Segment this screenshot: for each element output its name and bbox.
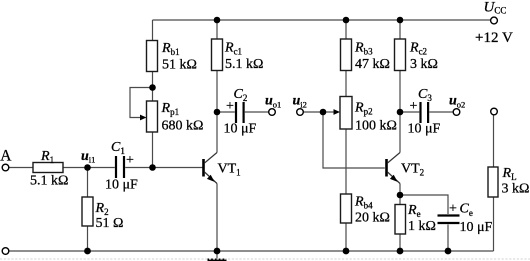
wire C1 to VT1 base — [125, 167, 202, 169]
wire VT1 emitter down — [216, 184, 218, 252]
wire Rc2 to collector — [399, 71, 401, 153]
resistor Re — [395, 205, 406, 235]
svg-text:+: + — [126, 153, 134, 168]
node ui1 — [84, 164, 91, 171]
wire A to R1 — [9, 167, 34, 169]
wire Rc2 top — [399, 20, 401, 39]
node bottom Ce — [445, 248, 452, 255]
wire Rp1 to base line — [152, 132, 154, 168]
arrow into Rp2 — [334, 109, 341, 115]
resistor RL — [488, 167, 498, 197]
svg-text:5.1 kΩ: 5.1 kΩ — [30, 174, 68, 189]
wire Ce bottom — [447, 225, 449, 252]
wire C3 to uo2 — [429, 111, 453, 113]
node C3 tap — [397, 109, 404, 116]
node VT2 emitter — [397, 192, 404, 199]
wire R2 top — [87, 168, 89, 198]
wire R2 bottom — [87, 226, 89, 251]
wire RL top — [493, 115, 495, 167]
capacitor C3 — [421, 102, 429, 123]
node ui2 branch — [320, 109, 327, 116]
svg-text:100 kΩ: 100 kΩ — [355, 119, 397, 134]
capacitor C1 — [116, 156, 124, 178]
transistor VT2 — [387, 153, 401, 184]
node top rail Rc2 — [397, 17, 404, 24]
svg-text:A: A — [0, 147, 12, 164]
svg-text:20 kΩ: 20 kΩ — [355, 211, 390, 226]
capacitor Ce — [438, 216, 460, 224]
arrow into Rp1 — [140, 115, 147, 121]
wire RL bottom — [493, 197, 495, 251]
svg-text:680 kΩ: 680 kΩ — [162, 119, 204, 134]
node bottom Re — [397, 248, 404, 255]
terminal uo1 — [269, 109, 276, 116]
svg-text:10 μF: 10 μF — [224, 122, 257, 137]
node bottom Rb4 — [343, 248, 350, 255]
wire Rc1 top — [216, 20, 218, 39]
node bottom R2 — [84, 248, 91, 255]
resistor Rb3 — [341, 39, 352, 71]
svg-text:10 μF: 10 μF — [408, 122, 441, 137]
resistor Rc2 — [395, 39, 406, 71]
node top rail Rc1 — [214, 17, 221, 24]
potentiometer Rp1 — [147, 101, 158, 132]
wire left drop to Rb1 — [152, 20, 154, 41]
svg-text:+: + — [449, 202, 457, 217]
terminal ui2 — [297, 109, 304, 116]
svg-text:10 μF: 10 μF — [460, 220, 493, 235]
ground — [208, 259, 227, 261]
wire VT2 emitter down — [399, 184, 401, 196]
resistor R1 — [33, 163, 63, 173]
svg-text:3 kΩ: 3 kΩ — [410, 57, 438, 72]
resistor Rb1 — [147, 41, 158, 72]
resistor Rc1 — [212, 39, 223, 71]
wire Rp2 to Rb4 — [345, 129, 347, 194]
wire bottom rail — [9, 250, 494, 252]
wire C2 left — [217, 111, 235, 113]
wire Rb3 top — [345, 20, 347, 39]
terminal Ucc — [491, 17, 498, 24]
node Rp1 base junction — [149, 164, 156, 171]
svg-text:+: + — [410, 99, 418, 114]
svg-text:3 kΩ: 3 kΩ — [502, 182, 530, 197]
wire Rb1 to Rp1 — [152, 72, 154, 102]
svg-text:51 kΩ: 51 kΩ — [162, 58, 197, 73]
wire emitter node to Re — [399, 195, 401, 205]
resistor R2 — [82, 197, 93, 226]
svg-text:10 μF: 10 μF — [105, 178, 138, 193]
terminal bottom left — [2, 248, 9, 255]
transistor VT1 — [204, 153, 218, 184]
wire C3 left — [400, 111, 419, 113]
faint page line — [0, 258, 530, 260]
wire Rc1 to collector — [216, 71, 218, 153]
terminal RL top — [491, 108, 498, 115]
svg-text:47 kΩ: 47 kΩ — [355, 57, 390, 72]
wire Rb4 bottom — [345, 223, 347, 251]
node C2 tap — [214, 109, 221, 116]
wire top rail — [153, 19, 491, 21]
svg-text:+12 V: +12 V — [475, 30, 513, 46]
svg-text:1 kΩ: 1 kΩ — [408, 219, 436, 234]
potentiometer Rp2 — [340, 97, 352, 130]
svg-text:5.1 kΩ: 5.1 kΩ — [225, 57, 263, 72]
node Rb1-Rp1 junction — [149, 84, 156, 91]
wire Rb3 to Rp2 — [345, 71, 347, 97]
svg-text:51 Ω: 51 Ω — [96, 216, 124, 231]
wire ground stub — [216, 251, 218, 259]
resistor Rb4 — [341, 194, 352, 223]
node bottom VT1 emitter — [214, 248, 221, 255]
capacitor C2 — [236, 102, 244, 123]
wire emitter node to Ce — [400, 195, 448, 214]
wire feedback loop Rp1 — [130, 88, 153, 118]
wire ui2 to Rp2 — [303, 111, 334, 113]
wire C2 to uo1 — [245, 111, 269, 113]
wire ui2 down to VT2 base — [323, 112, 385, 168]
svg-text:+: + — [226, 99, 234, 114]
node top rail Rb3 — [343, 17, 350, 24]
terminal A — [2, 164, 9, 171]
wire R1 to C1 — [63, 167, 115, 169]
wire Re bottom — [399, 234, 401, 251]
terminal uo2 — [453, 109, 460, 116]
